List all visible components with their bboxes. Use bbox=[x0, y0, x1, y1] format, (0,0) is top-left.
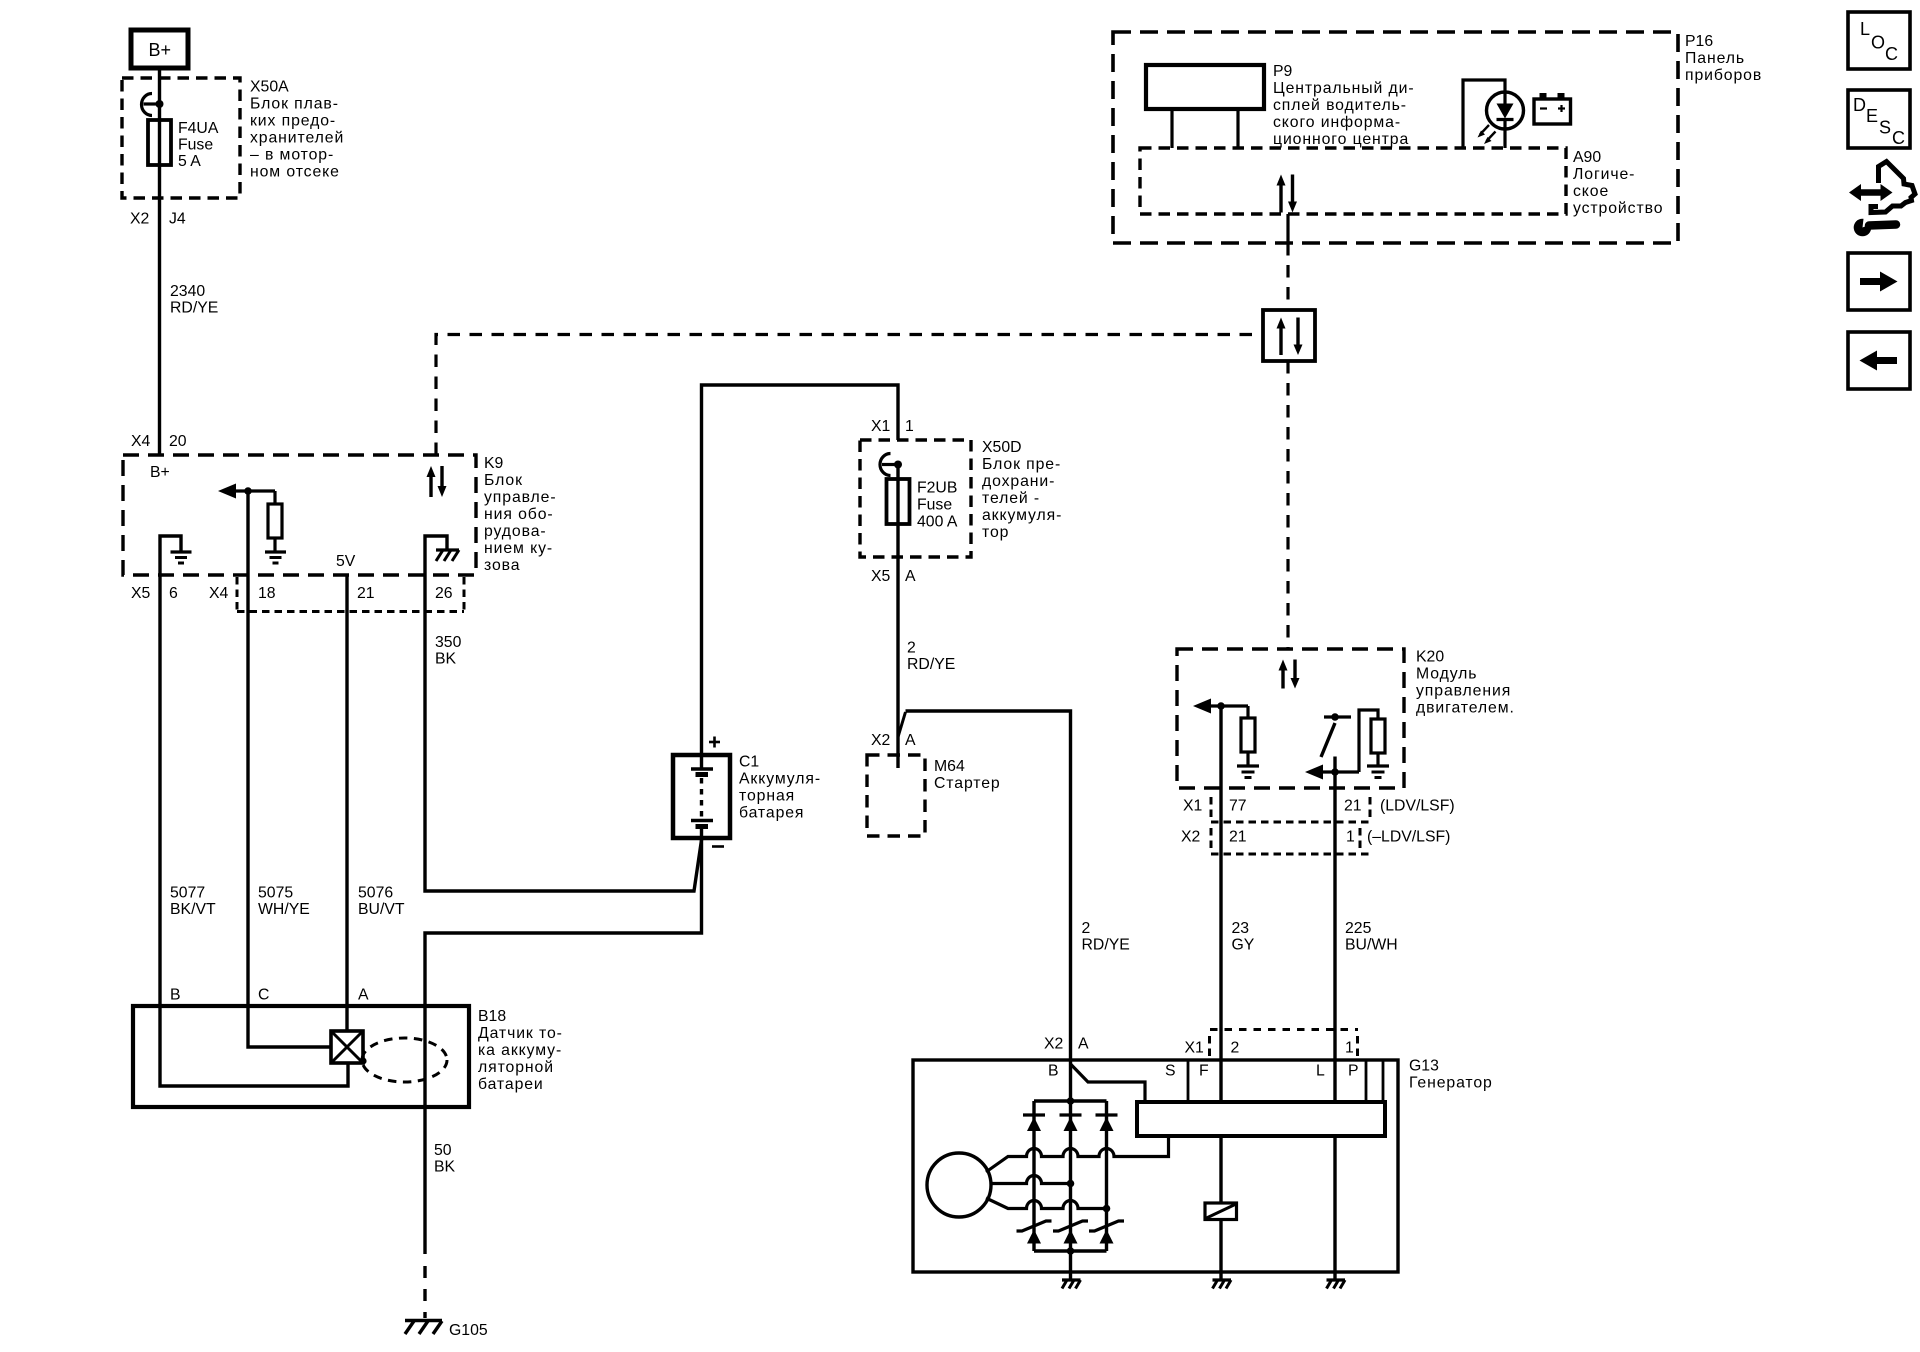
svg-text:(–LDV/LSF): (–LDV/LSF) bbox=[1367, 829, 1450, 846]
dashed link DLC to K20 bbox=[1286, 361, 1289, 649]
wire 2 RD/YE to starter bbox=[896, 557, 899, 755]
ground (3-bar) under K9 resistor bbox=[265, 552, 286, 563]
svg-text:аккумуля-: аккумуля- bbox=[982, 507, 1062, 524]
sensor element (crossed square) B18 bbox=[331, 1031, 363, 1063]
svg-text:2: 2 bbox=[1082, 920, 1091, 937]
label P16 bbox=[1685, 33, 1762, 84]
svg-text:S: S bbox=[1165, 1063, 1176, 1080]
dashed data link K9 to instrument connector bbox=[436, 335, 1263, 456]
fuse clip hook X50D bbox=[880, 454, 891, 476]
stator winding row 3 bbox=[986, 1198, 1107, 1209]
svg-text:Блок пре-: Блок пре- bbox=[982, 456, 1061, 473]
svg-text:ляторной: ляторной bbox=[478, 1059, 554, 1076]
wire 5076 BU/VT (pin21 to B18 A) bbox=[345, 575, 348, 1006]
svg-text:A: A bbox=[905, 568, 916, 585]
svg-text:2: 2 bbox=[1231, 1040, 1240, 1057]
svg-text:Центральный ди-: Центральный ди- bbox=[1273, 80, 1415, 97]
svg-text:BK: BK bbox=[435, 651, 457, 668]
svg-text:C: C bbox=[1892, 128, 1905, 148]
svg-text:S: S bbox=[1879, 118, 1891, 138]
pin labels X5 6 X4 18 21 26 bbox=[131, 585, 453, 602]
junction dot K20 switch top bbox=[1331, 713, 1339, 721]
svg-text:тор: тор bbox=[982, 524, 1009, 541]
svg-text:C1: C1 bbox=[739, 754, 759, 771]
engine control module K20 dashed box bbox=[1177, 649, 1404, 788]
svg-text:26: 26 bbox=[435, 585, 453, 602]
svg-text:J4: J4 bbox=[169, 211, 186, 228]
svg-text:2340: 2340 bbox=[170, 283, 205, 300]
zener diode bottom 1 bbox=[1017, 1221, 1052, 1244]
wire label 2 RD/YE (generator B) bbox=[1082, 920, 1130, 954]
arrow out (left) K9 bbox=[218, 484, 275, 499]
svg-text:5075: 5075 bbox=[258, 885, 293, 902]
battery plus sign bbox=[709, 737, 720, 748]
svg-text:77: 77 bbox=[1229, 798, 1247, 815]
svg-text:батареи: батареи bbox=[478, 1076, 544, 1093]
data link connector box bbox=[1263, 310, 1315, 361]
svg-text:Датчик то-: Датчик то- bbox=[478, 1025, 563, 1042]
svg-text:50: 50 bbox=[434, 1142, 452, 1159]
svg-text:B: B bbox=[1048, 1063, 1059, 1080]
svg-text:BU/WH: BU/WH bbox=[1345, 937, 1398, 954]
svg-text:BK: BK bbox=[434, 1159, 456, 1176]
svg-text:350: 350 bbox=[435, 634, 462, 651]
svg-text:Аккумуля-: Аккумуля- bbox=[739, 771, 821, 788]
wire K9 right pin 26 to chassis ground bbox=[425, 536, 447, 575]
svg-text:B+: B+ bbox=[150, 464, 170, 481]
junction dot X50A bbox=[156, 100, 164, 108]
label X50D block bbox=[982, 439, 1062, 541]
display legs P9 bbox=[1170, 109, 1173, 148]
svg-text:нием ку-: нием ку- bbox=[484, 540, 553, 557]
svg-text:X50A: X50A bbox=[250, 79, 289, 96]
label K9 block bbox=[484, 455, 557, 574]
svg-text:X1: X1 bbox=[871, 418, 891, 435]
pin letters B S F L P bbox=[1048, 1063, 1359, 1080]
svg-text:225: 225 bbox=[1345, 920, 1372, 937]
stator winding row 2 bbox=[991, 1176, 1071, 1184]
pin X4 / 20 bbox=[131, 433, 187, 450]
label A90 bbox=[1573, 149, 1663, 217]
wire label 350 BK bbox=[435, 634, 462, 668]
svg-text:сплей водитель-: сплей водитель- bbox=[1273, 97, 1407, 114]
wire starter feed to generator B bbox=[906, 711, 1071, 1060]
svg-text:A: A bbox=[905, 732, 916, 749]
svg-text:18: 18 bbox=[258, 585, 276, 602]
wire A inside B18 bbox=[345, 1006, 348, 1031]
svg-text:ского информа-: ского информа- bbox=[1273, 114, 1401, 131]
icon arrow right box bbox=[1848, 253, 1910, 310]
wire B inside B18 bbox=[160, 1006, 348, 1086]
battery telltale icon bbox=[1534, 93, 1571, 124]
junction dot K20 left bbox=[1217, 702, 1225, 710]
connector cell walls G13 bbox=[1187, 1060, 1190, 1102]
svg-text:зова: зова bbox=[484, 557, 520, 574]
module K9 dashed box bbox=[123, 455, 476, 575]
svg-text:Fuse: Fuse bbox=[178, 137, 213, 154]
wire B+ to fuse block bbox=[158, 68, 161, 104]
svg-text:WH/YE: WH/YE bbox=[258, 901, 310, 918]
ground (3-bar) K20 right bbox=[1367, 766, 1389, 778]
svg-text:приборов: приборов bbox=[1685, 67, 1762, 84]
svg-text:X2: X2 bbox=[130, 211, 149, 228]
svg-text:BU/VT: BU/VT bbox=[358, 901, 405, 918]
svg-text:телей -: телей - bbox=[982, 490, 1040, 507]
connector X4 sub-box dashed bbox=[237, 577, 464, 612]
data arrows DLC bbox=[1277, 318, 1303, 356]
LED wiring P16 bbox=[1463, 80, 1505, 148]
svg-text:Генератор: Генератор bbox=[1409, 1075, 1493, 1092]
svg-text:B18: B18 bbox=[478, 1008, 506, 1025]
svg-text:A: A bbox=[1078, 1036, 1089, 1053]
svg-text:F4UA: F4UA bbox=[178, 120, 219, 137]
rectifier bridge top rail bbox=[1034, 1099, 1107, 1102]
junction dot K9 bbox=[244, 487, 252, 495]
icon vehicle data / diagnosis bbox=[1849, 162, 1915, 213]
wire A90 to P16 edge bbox=[1286, 214, 1289, 243]
svg-text:P16: P16 bbox=[1685, 33, 1713, 50]
wire K9 dot to pin 18 bbox=[246, 491, 249, 575]
node B+ terminal box bbox=[131, 30, 188, 68]
svg-text:21: 21 bbox=[1344, 798, 1362, 815]
logic unit A90 dashed box bbox=[1140, 148, 1566, 214]
svg-text:ционного центра: ционного центра bbox=[1273, 131, 1409, 148]
switch K20 right bbox=[1321, 717, 1351, 757]
svg-text:P9: P9 bbox=[1273, 63, 1293, 80]
svg-text:K9: K9 bbox=[484, 455, 504, 472]
battery C1 box bbox=[673, 755, 730, 838]
wire fuse to K9 (2340 RD/YE) bbox=[158, 165, 161, 455]
field indicator lamp G13 bbox=[1205, 1203, 1237, 1220]
dashed wire to G105 bbox=[423, 1266, 426, 1318]
svg-text:1: 1 bbox=[1345, 1040, 1354, 1057]
connector rows K20: X2 21 / 1 (-LDV/LSF) bbox=[1181, 822, 1450, 854]
data arrows A90 bbox=[1277, 175, 1298, 213]
junction dot K20 lower bbox=[1331, 768, 1339, 776]
arrow out (left) K20 lower bbox=[1305, 765, 1359, 780]
svg-text:P: P bbox=[1348, 1063, 1359, 1080]
svg-text:F: F bbox=[1199, 1063, 1209, 1080]
icon wrench bbox=[1854, 215, 1896, 237]
svg-text:ких предо-: ких предо- bbox=[250, 113, 336, 130]
wire battery plus feed (from top corner) bbox=[702, 385, 899, 755]
rectifier column 3 bbox=[1105, 1101, 1108, 1251]
wire dot to fuse F4UA bbox=[158, 104, 161, 165]
pin X2 / A starter bbox=[871, 732, 916, 749]
chassis ground below G13 (L) bbox=[1327, 1272, 1346, 1289]
svg-text:Стартер: Стартер bbox=[934, 775, 1001, 792]
fuse block X50A dashed box bbox=[122, 78, 240, 198]
generator G13 box bbox=[913, 1060, 1398, 1272]
starter M64 dashed box bbox=[867, 755, 925, 836]
svg-text:RD/YE: RD/YE bbox=[1082, 937, 1130, 954]
fuse F4UA bbox=[148, 120, 171, 165]
svg-text:ном отсеке: ном отсеке bbox=[250, 164, 340, 181]
junction dot at sensor corner bbox=[359, 1057, 366, 1064]
connector X1 row above G13 bbox=[1185, 1030, 1359, 1059]
svg-text:торная: торная bbox=[739, 788, 795, 805]
ground G105 bbox=[405, 1321, 488, 1340]
sensed cable loop (dashed ellipse) B18 bbox=[362, 1038, 447, 1082]
wire 225 BU/WH (K20 to G13 L) bbox=[1333, 789, 1336, 1272]
svg-text:O: O bbox=[1871, 33, 1885, 53]
svg-text:21: 21 bbox=[1229, 829, 1247, 846]
pin X2 / A generator bbox=[1044, 1036, 1089, 1053]
svg-text:X1: X1 bbox=[1185, 1040, 1205, 1057]
svg-text:A90: A90 bbox=[1573, 149, 1601, 166]
svg-text:X2: X2 bbox=[871, 732, 890, 749]
ground (3-bar) K9 left bbox=[171, 552, 192, 563]
instrument panel P16 dashed box bbox=[1113, 32, 1678, 243]
wire pass-through B18 (50 BK) bbox=[423, 1006, 426, 1254]
svg-text:рудова-: рудова- bbox=[484, 523, 547, 540]
wire C inside B18 bbox=[248, 1006, 331, 1047]
splice diagonal to generator feed bbox=[898, 712, 906, 737]
svg-text:Блок: Блок bbox=[484, 472, 523, 489]
svg-text:5 A: 5 A bbox=[178, 153, 201, 170]
voltage regulator G13 bbox=[1137, 1102, 1385, 1136]
battery current sensor B18 box bbox=[133, 1006, 469, 1107]
data arrows K9 bbox=[427, 466, 447, 497]
svg-text:K20: K20 bbox=[1416, 649, 1444, 666]
svg-text:ское: ское bbox=[1573, 183, 1609, 200]
wire B inside G13 bbox=[1069, 1060, 1072, 1272]
svg-text:X5: X5 bbox=[871, 568, 891, 585]
label X50A block bbox=[250, 79, 344, 181]
ground (3-bar) K20 left bbox=[1237, 766, 1259, 778]
svg-text:5V: 5V bbox=[336, 553, 356, 570]
svg-text:5076: 5076 bbox=[358, 885, 393, 902]
rectifier bridge bottom rail bbox=[1034, 1249, 1107, 1252]
svg-text:B+: B+ bbox=[149, 40, 172, 60]
resistor K20 left bbox=[1241, 706, 1255, 766]
svg-text:Логиче-: Логиче- bbox=[1573, 166, 1635, 183]
rectifier column 1 bbox=[1032, 1101, 1035, 1251]
wire through fuse X50D bbox=[896, 465, 899, 558]
wire 23 GY (K20 to G13 F) bbox=[1219, 706, 1222, 1203]
svg-text:5077: 5077 bbox=[170, 885, 205, 902]
chassis ground K9 right bbox=[436, 550, 459, 561]
svg-text:ния обо-: ния обо- bbox=[484, 506, 554, 523]
svg-text:E: E bbox=[1866, 106, 1878, 126]
svg-text:устройство: устройство bbox=[1573, 200, 1663, 217]
pin X1 / 1 bbox=[871, 418, 914, 435]
svg-text:BK/VT: BK/VT bbox=[170, 901, 216, 918]
svg-text:A: A bbox=[358, 987, 369, 1004]
LED indicator bbox=[1487, 92, 1524, 129]
svg-text:L: L bbox=[1316, 1063, 1325, 1080]
display P9 box bbox=[1146, 65, 1264, 109]
chassis ground below G13 (B) bbox=[1062, 1272, 1081, 1289]
dashed link P16 to DLC bbox=[1286, 243, 1289, 310]
label G13 bbox=[1409, 1058, 1493, 1092]
svg-text:X4: X4 bbox=[131, 433, 151, 450]
svg-text:дохрани-: дохрани- bbox=[982, 473, 1055, 490]
fuse clip hook X50A bbox=[142, 94, 153, 116]
svg-text:G13: G13 bbox=[1409, 1058, 1439, 1075]
wire label 2340 RD/YE bbox=[170, 283, 218, 317]
wire K20 switch leg bbox=[1333, 757, 1336, 790]
svg-text:L: L bbox=[1860, 19, 1870, 39]
fuse F2UB bbox=[887, 479, 910, 524]
svg-text:G105: G105 bbox=[449, 1322, 488, 1339]
svg-text:X50D: X50D bbox=[982, 439, 1022, 456]
pin X2 / J4 bbox=[130, 211, 186, 228]
svg-text:Блок плав-: Блок плав- bbox=[250, 96, 339, 113]
svg-text:M64: M64 bbox=[934, 758, 965, 775]
svg-text:C: C bbox=[1885, 44, 1898, 64]
svg-text:управле-: управле- bbox=[484, 489, 557, 506]
wire K9 pin 6 to internal ground bbox=[160, 536, 181, 575]
svg-text:D: D bbox=[1853, 95, 1866, 115]
svg-text:RD/YE: RD/YE bbox=[907, 656, 955, 673]
icon DESC box bbox=[1848, 90, 1910, 148]
svg-text:двигателем.: двигателем. bbox=[1416, 700, 1515, 717]
stator winding row 1 bbox=[986, 1138, 1169, 1172]
svg-text:X4: X4 bbox=[209, 585, 229, 602]
icon arrow left box bbox=[1848, 332, 1910, 389]
resistor K20 right bbox=[1359, 710, 1385, 772]
svg-text:X1: X1 bbox=[1183, 798, 1203, 815]
label M64 bbox=[934, 758, 1001, 792]
diode top 3 bbox=[1096, 1115, 1118, 1131]
pin letters B C A bbox=[170, 987, 369, 1004]
svg-text:21: 21 bbox=[357, 585, 375, 602]
icon LOC box bbox=[1848, 12, 1910, 69]
fuse block X50D dashed box bbox=[860, 440, 971, 557]
arrow out (left) K20 bbox=[1193, 699, 1248, 714]
svg-text:B: B bbox=[170, 987, 181, 1004]
zener diode bottom 3 bbox=[1089, 1221, 1124, 1244]
rotor G13 bbox=[927, 1153, 991, 1217]
battery minus sign bbox=[712, 845, 724, 848]
svg-text:хранителей: хранителей bbox=[250, 130, 344, 147]
chassis ground below G13 (F) bbox=[1213, 1272, 1232, 1289]
wire 5075 WH/YE (pin18 to B18 C) bbox=[246, 575, 249, 1006]
data arrows K20 bbox=[1279, 660, 1300, 689]
svg-text:2: 2 bbox=[907, 640, 916, 657]
svg-text:GY: GY bbox=[1232, 937, 1255, 954]
zener diode bottom 2 bbox=[1053, 1221, 1088, 1244]
svg-text:Fuse: Fuse bbox=[917, 497, 952, 514]
pin X5 / A bbox=[871, 568, 916, 585]
battery cells C1 bbox=[691, 755, 713, 838]
svg-text:1: 1 bbox=[905, 418, 914, 435]
svg-text:1: 1 bbox=[1346, 829, 1355, 846]
connector rows K20: X1 77 / 21 (LDV/LSF) bbox=[1183, 797, 1455, 817]
svg-text:6: 6 bbox=[169, 585, 178, 602]
resistor inside K9 bbox=[268, 491, 282, 552]
svg-text:Модуль: Модуль bbox=[1416, 666, 1477, 683]
label B18 bbox=[478, 1008, 563, 1093]
diode top 1 bbox=[1023, 1115, 1045, 1131]
svg-text:400 A: 400 A bbox=[917, 514, 958, 531]
svg-text:X2: X2 bbox=[1044, 1036, 1063, 1053]
svg-text:X2: X2 bbox=[1181, 829, 1200, 846]
svg-text:(LDV/LSF): (LDV/LSF) bbox=[1380, 798, 1455, 815]
label P9 bbox=[1273, 63, 1415, 148]
label K20 bbox=[1416, 649, 1515, 717]
svg-text:23: 23 bbox=[1232, 920, 1250, 937]
wire B to regulator S bbox=[1071, 1064, 1146, 1102]
svg-text:Панель: Панель bbox=[1685, 50, 1745, 67]
svg-text:ка аккуму-: ка аккуму- bbox=[478, 1042, 562, 1059]
svg-text:X5: X5 bbox=[131, 585, 151, 602]
svg-text:20: 20 bbox=[169, 433, 187, 450]
wire 350 BK pin26 to battery minus splice bbox=[425, 575, 702, 891]
diode top 2 bbox=[1060, 1115, 1082, 1131]
svg-text:– в мотор-: – в мотор- bbox=[250, 147, 334, 164]
svg-text:RD/YE: RD/YE bbox=[170, 300, 218, 317]
svg-text:F2UB: F2UB bbox=[917, 480, 957, 497]
svg-text:батарея: батарея bbox=[739, 805, 804, 822]
svg-text:C: C bbox=[258, 987, 269, 1004]
label C1 bbox=[739, 754, 821, 822]
LED emission arrows bbox=[1478, 125, 1496, 144]
junction dot X50D bbox=[894, 461, 902, 469]
wire 5077 BK/VT (pin6 to B18 B) bbox=[158, 575, 161, 1006]
wire battery minus to B18 pass-through bbox=[425, 838, 702, 1006]
svg-text:управления: управления bbox=[1416, 683, 1511, 700]
